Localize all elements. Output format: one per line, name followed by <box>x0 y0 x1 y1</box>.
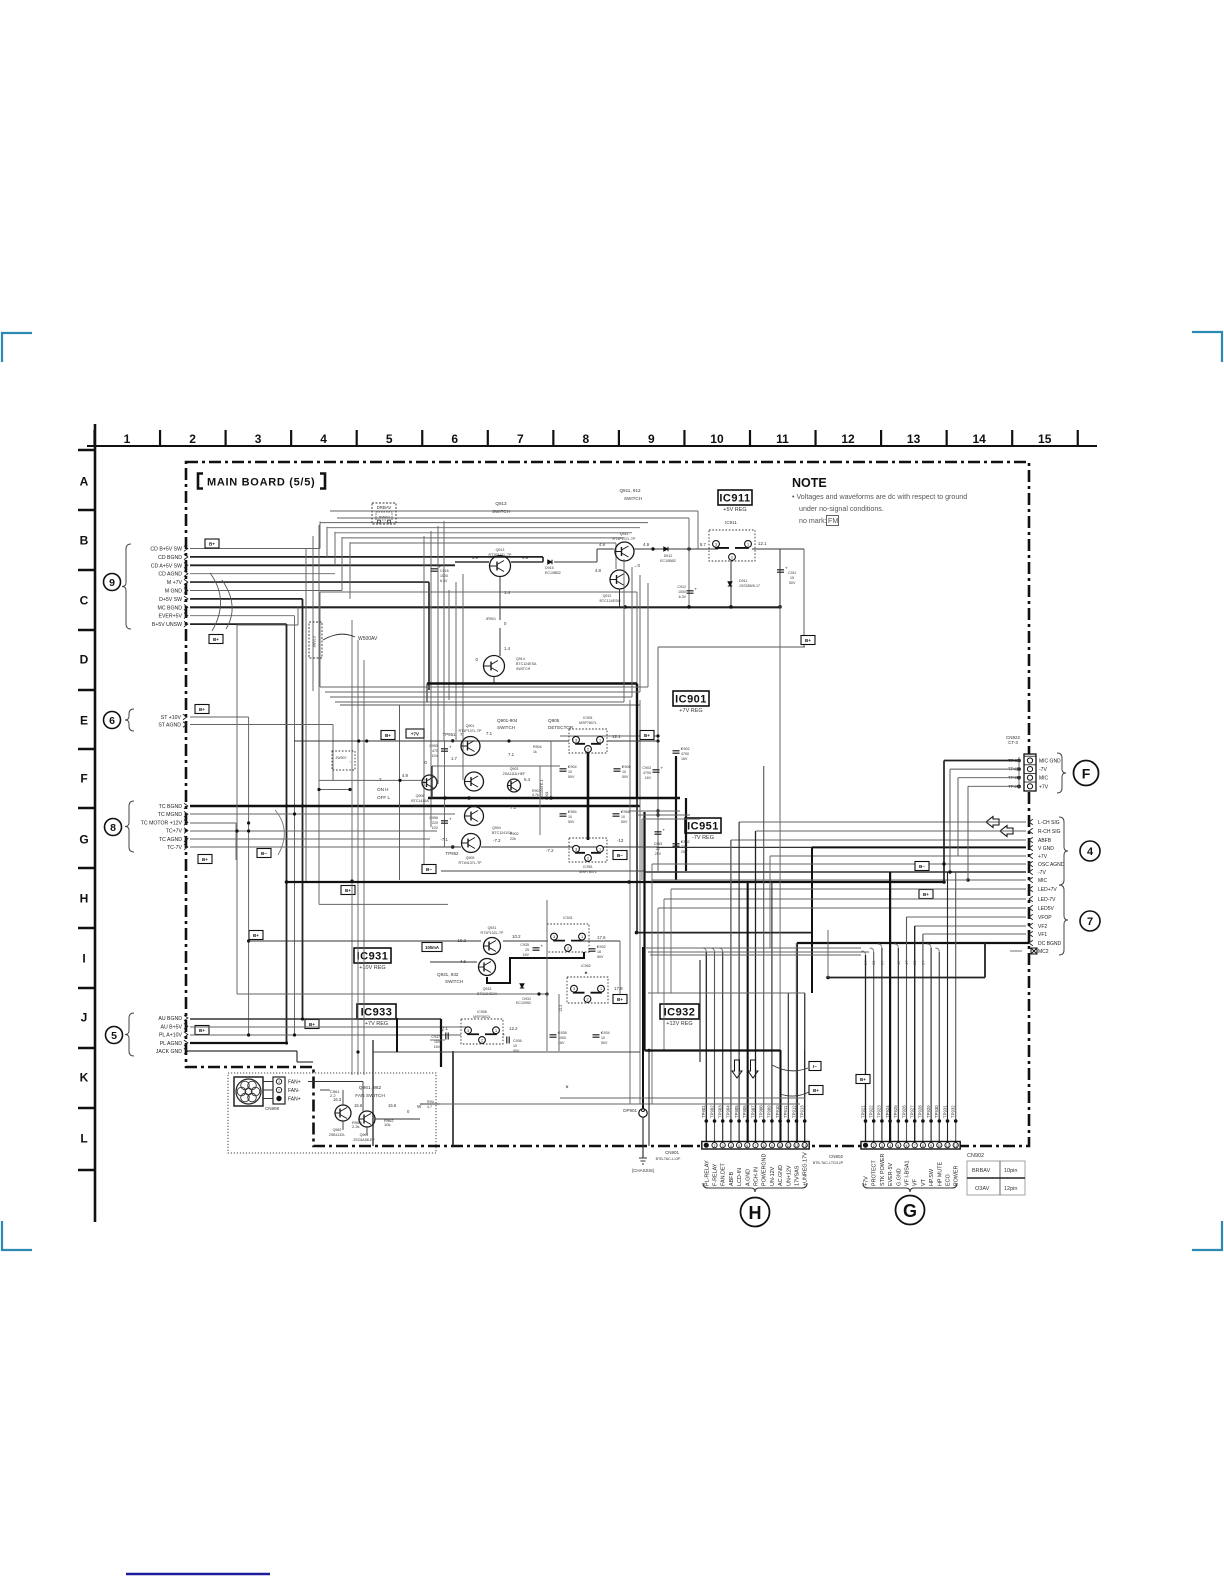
svg-text:15.6: 15.6 <box>388 1103 397 1108</box>
svg-text:100mA: 100mA <box>425 945 439 950</box>
svg-text:Q912: Q912 <box>603 594 612 598</box>
svg-text:B−: B− <box>617 853 623 858</box>
svg-text:C935: C935 <box>520 943 529 947</box>
svg-text:+: + <box>442 1028 445 1033</box>
svg-text:37: 37 <box>879 960 884 965</box>
svg-text:MC BGND: MC BGND <box>158 605 183 611</box>
svg-text:Q931, 932: Q931, 932 <box>437 972 459 977</box>
svg-text:C912: C912 <box>677 585 686 589</box>
svg-text:EVER-5V: EVER-5V <box>888 1163 894 1186</box>
svg-text:TP903: TP903 <box>718 1105 723 1118</box>
svg-text:3: 3 <box>881 1144 883 1148</box>
svg-text:10V: 10V <box>432 826 439 830</box>
svg-text:AU BGND: AU BGND <box>158 1016 182 1022</box>
svg-text:→0: →0 <box>633 563 641 568</box>
svg-text:D911: D911 <box>739 579 747 583</box>
svg-text:10: 10 <box>568 770 572 774</box>
svg-text:IC951: IC951 <box>687 821 719 833</box>
svg-text:A.GND: A.GND <box>745 1169 751 1186</box>
svg-text:2: 2 <box>189 432 196 446</box>
svg-text:4.7: 4.7 <box>427 1105 432 1109</box>
svg-text:G: G <box>79 833 88 847</box>
svg-text:C937: C937 <box>431 1035 440 1039</box>
svg-text:4700: 4700 <box>643 771 651 775</box>
svg-text:8: 8 <box>763 1144 765 1148</box>
svg-text:2: 2 <box>731 556 733 560</box>
svg-text:D901: D901 <box>545 791 549 800</box>
svg-text:M +7V: M +7V <box>167 580 183 586</box>
svg-text:-7.2: -7.2 <box>546 848 554 853</box>
svg-text:R902: R902 <box>510 832 519 836</box>
svg-text:TP928: TP928 <box>918 1105 923 1118</box>
svg-text:TP909: TP909 <box>767 1105 772 1118</box>
svg-text:C954: C954 <box>568 810 577 814</box>
svg-text:Q901-904: Q901-904 <box>497 718 518 723</box>
svg-text:TP952: TP952 <box>446 851 459 856</box>
svg-text:Q906: Q906 <box>416 794 425 798</box>
svg-text:+: + <box>449 817 452 822</box>
svg-text:DC BGND: DC BGND <box>1038 941 1061 947</box>
svg-text:B+: B+ <box>345 888 351 893</box>
svg-text:+7V: +7V <box>1039 784 1049 790</box>
svg-text:27: 27 <box>863 960 868 965</box>
svg-text:TP911: TP911 <box>783 1105 788 1118</box>
svg-text:IC951: IC951 <box>583 865 593 869</box>
svg-text:TP923: TP923 <box>877 1105 882 1118</box>
svg-text:10: 10 <box>513 1044 517 1048</box>
svg-text:B+: B+ <box>253 933 259 938</box>
svg-text:HP MUTE: HP MUTE <box>937 1161 943 1186</box>
svg-text:470: 470 <box>432 749 438 753</box>
svg-text:1SS355/5-17: 1SS355/5-17 <box>739 584 760 588</box>
svg-text:IC952: IC952 <box>581 964 591 968</box>
svg-text:ABFB: ABFB <box>729 1172 735 1186</box>
svg-text:25: 25 <box>525 948 529 952</box>
svg-text:CN902: CN902 <box>829 1154 844 1159</box>
svg-text:MC2: MC2 <box>1038 949 1049 955</box>
svg-text:POWERGND: POWERGND <box>762 1154 768 1186</box>
svg-text:Q913: Q913 <box>495 501 507 506</box>
svg-text:+7V: +7V <box>1038 854 1048 860</box>
svg-text:10: 10 <box>568 815 572 819</box>
svg-text:ON H: ON H <box>377 787 388 792</box>
svg-text:CN908: CN908 <box>265 1106 280 1111</box>
svg-text:57: 57 <box>920 960 925 965</box>
svg-text:2: 2 <box>587 857 589 861</box>
svg-text:OSC AGND: OSC AGND <box>1038 862 1065 868</box>
svg-text:-7V: -7V <box>1038 870 1046 876</box>
svg-text:5: 5 <box>897 1144 899 1148</box>
svg-text:3: 3 <box>255 432 262 446</box>
svg-text:100: 100 <box>434 1040 440 1044</box>
svg-text:RT1P137L-TP: RT1P137L-TP <box>459 729 483 733</box>
svg-text:10: 10 <box>710 432 724 446</box>
svg-text:Q911, 912: Q911, 912 <box>619 488 641 493</box>
svg-text:VF I-BSA1: VF I-BSA1 <box>905 1161 911 1186</box>
svg-text:C916: C916 <box>440 569 449 573</box>
svg-text:RCH-IN: RCH-IN <box>754 1167 760 1186</box>
svg-text:Q905: Q905 <box>466 856 475 860</box>
svg-text:C911: C911 <box>788 571 796 575</box>
svg-text:no mark:: no mark: <box>799 517 827 525</box>
svg-text:12.2: 12.2 <box>559 1005 563 1012</box>
svg-text:2: 2 <box>278 1089 280 1093</box>
svg-text:TC BGND: TC BGND <box>159 804 183 810</box>
svg-text:RT1P132L-TP: RT1P132L-TP <box>481 931 505 935</box>
svg-text:J: J <box>81 1011 88 1025</box>
svg-text:3: 3 <box>553 935 555 939</box>
svg-text:R-CH SIG: R-CH SIG <box>1038 829 1061 835</box>
svg-text:BTC124ESM: BTC124ESM <box>600 599 621 603</box>
svg-text:32: 32 <box>871 960 876 965</box>
svg-text:BTC1415A: BTC1415A <box>411 799 429 803</box>
svg-text:ST AGND: ST AGND <box>158 723 181 729</box>
svg-text:B+: B+ <box>617 997 623 1002</box>
svg-text:MIC: MIC <box>1039 776 1049 782</box>
svg-text:B+: B+ <box>202 857 208 862</box>
svg-text:LED5V: LED5V <box>1038 906 1055 912</box>
svg-text:7: 7 <box>914 1144 916 1148</box>
svg-text:2SA1115-HEF: 2SA1115-HEF <box>503 772 526 776</box>
svg-text:TP929: TP929 <box>926 1105 931 1118</box>
svg-text:220: 220 <box>432 821 438 825</box>
svg-text:2: 2 <box>481 1039 483 1043</box>
svg-text:LED-7V: LED-7V <box>1038 897 1056 903</box>
svg-text:TP927: TP927 <box>910 1105 915 1118</box>
svg-text:TP921: TP921 <box>860 1105 865 1118</box>
svg-text:13: 13 <box>803 1144 807 1148</box>
svg-text:FAN+: FAN+ <box>288 1097 301 1103</box>
svg-text:FM: FM <box>828 517 838 525</box>
svg-text:4.9: 4.9 <box>599 542 606 547</box>
svg-text:C904: C904 <box>568 765 577 769</box>
svg-text:×: × <box>565 1085 569 1091</box>
svg-text:50V: 50V <box>789 581 796 585</box>
svg-text:TP902: TP902 <box>709 1105 714 1118</box>
svg-text:+: + <box>695 587 698 592</box>
svg-text:5: 5 <box>111 1030 117 1042</box>
svg-text:Q933: Q933 <box>483 987 492 991</box>
svg-text:C936: C936 <box>513 1039 522 1043</box>
svg-text:16V: 16V <box>434 1045 441 1049</box>
svg-text:TP901: TP901 <box>701 1105 706 1118</box>
svg-text:RT1P137L-TP: RT1P137L-TP <box>613 537 637 541</box>
svg-text:4.9: 4.9 <box>402 773 409 778</box>
svg-text:11: 11 <box>776 432 789 446</box>
svg-text:BRBAV: BRBAV <box>972 1168 991 1174</box>
svg-text:3: 3 <box>467 1029 469 1033</box>
svg-text:EC10BB2: EC10BB2 <box>660 559 676 563</box>
svg-text:3: 3 <box>575 738 577 742</box>
svg-text:4.9: 4.9 <box>522 555 529 560</box>
svg-text:TP910: TP910 <box>775 1105 780 1118</box>
svg-text:TP906: TP906 <box>742 1105 747 1118</box>
svg-text:6: 6 <box>746 1144 748 1148</box>
svg-text:M GND: M GND <box>165 589 183 595</box>
svg-text:Q961, 962: Q961, 962 <box>359 1085 382 1091</box>
svg-text:4.9: 4.9 <box>472 555 479 560</box>
svg-text:F: F <box>80 772 87 786</box>
svg-text:BTC124ESA: BTC124ESA <box>516 662 537 666</box>
svg-text:-13: -13 <box>617 838 624 843</box>
svg-text:1: 1 <box>600 987 602 991</box>
svg-text:B+: B+ <box>385 733 391 738</box>
svg-text:C: C <box>80 594 89 608</box>
svg-text:B−: B− <box>261 851 267 856</box>
svg-text:IC933: IC933 <box>361 1007 393 1019</box>
svg-text:STK POWER: STK POWER <box>880 1154 886 1186</box>
svg-text:R9U: R9U <box>427 1100 435 1104</box>
svg-text:C902: C902 <box>681 747 690 751</box>
svg-text:NOTE: NOTE <box>792 476 827 490</box>
svg-text:PROTECT: PROTECT <box>872 1160 878 1186</box>
svg-text:Q904: Q904 <box>492 826 501 830</box>
svg-text:50V: 50V <box>601 1041 608 1045</box>
svg-text:50V: 50V <box>568 775 575 779</box>
svg-text:TP926: TP926 <box>901 1105 906 1118</box>
svg-text:SWITCH: SWITCH <box>445 979 463 984</box>
svg-text:11: 11 <box>946 1144 950 1148</box>
svg-text:IC901: IC901 <box>675 694 707 706</box>
svg-text:10: 10 <box>778 1144 782 1148</box>
svg-text:under no-signal conditions.: under no-signal conditions. <box>799 505 884 513</box>
svg-text:2SC5A58-EP: 2SC5A58-EP <box>353 1138 375 1142</box>
svg-text:B+: B+ <box>213 637 219 642</box>
svg-text:L: L <box>80 1132 87 1146</box>
svg-text:JW907: JW907 <box>335 756 346 760</box>
svg-text:8: 8 <box>583 432 590 446</box>
svg-text:+5V REG: +5V REG <box>723 507 746 513</box>
svg-text:B+: B+ <box>860 1077 866 1082</box>
svg-text:D: D <box>80 653 89 667</box>
svg-text:BTB-TAC-LTG/12P: BTB-TAC-LTG/12P <box>813 1161 844 1165</box>
svg-text:2: 2 <box>587 748 589 752</box>
svg-text:CD B+5V SW: CD B+5V SW <box>150 547 182 553</box>
svg-text:Q911: Q911 <box>620 532 629 536</box>
svg-text:B+: B+ <box>644 733 650 738</box>
svg-text:12.2: 12.2 <box>509 1026 518 1031</box>
svg-text:6.3V: 6.3V <box>440 579 448 583</box>
svg-text:+12V REG: +12V REG <box>666 1021 692 1027</box>
svg-text:I−: I− <box>813 1064 817 1069</box>
svg-text:+7V: +7V <box>411 731 419 736</box>
svg-text:22k: 22k <box>510 837 516 841</box>
svg-text:SWITCH: SWITCH <box>413 804 428 808</box>
svg-text:1: 1 <box>747 542 749 546</box>
svg-text:+7V REG: +7V REG <box>365 1021 388 1027</box>
svg-text:1: 1 <box>124 432 131 446</box>
svg-text:JACK GND: JACK GND <box>156 1049 182 1055</box>
svg-text:TP931: TP931 <box>942 1105 947 1118</box>
svg-text:10: 10 <box>601 1036 605 1040</box>
svg-text:BTB-TAC-L13P: BTB-TAC-L13P <box>656 1157 681 1161</box>
svg-text:3: 3 <box>278 1080 280 1084</box>
svg-text:D915: D915 <box>545 566 554 570</box>
svg-text:B+5V UNSW: B+5V UNSW <box>152 622 182 628</box>
svg-text:MSP3802L: MSP3802L <box>473 1015 491 1019</box>
svg-text:8: 8 <box>922 1144 924 1148</box>
svg-text:5.7: 5.7 <box>700 542 707 547</box>
svg-text:ABFB: ABFB <box>1038 838 1052 844</box>
svg-text:TP925: TP925 <box>893 1105 898 1118</box>
svg-text:B+: B+ <box>813 1088 819 1093</box>
svg-text:TP908: TP908 <box>759 1105 764 1118</box>
svg-text:50V: 50V <box>622 775 629 779</box>
svg-text:9: 9 <box>930 1144 932 1148</box>
svg-text:B+: B+ <box>805 638 811 643</box>
svg-text:TP932: TP932 <box>951 1105 956 1118</box>
svg-text:Q962: Q962 <box>333 1128 342 1132</box>
svg-text:10: 10 <box>622 770 626 774</box>
svg-text:+7V REG: +7V REG <box>679 708 702 714</box>
svg-text:B: B <box>80 534 89 548</box>
svg-text:VF1: VF1 <box>1038 932 1047 938</box>
svg-text:10k: 10k <box>384 1122 390 1127</box>
svg-text:14: 14 <box>972 432 986 446</box>
svg-text:12: 12 <box>954 1144 958 1148</box>
svg-text:Q905: Q905 <box>548 718 560 723</box>
svg-text:+: + <box>663 828 666 833</box>
svg-text:9: 9 <box>771 1144 773 1148</box>
svg-text:D+5V SW: D+5V SW <box>159 597 182 603</box>
svg-text:4700: 4700 <box>681 752 689 756</box>
svg-text:9: 9 <box>109 577 115 589</box>
svg-text:E: E <box>80 714 88 728</box>
svg-text:10.2: 10.2 <box>512 934 521 939</box>
svg-text:B+: B+ <box>199 1028 205 1033</box>
svg-text:12.1: 12.1 <box>758 541 767 546</box>
svg-text:HP.SW: HP.SW <box>929 1168 935 1186</box>
svg-text:MAIN BOARD (5/5): MAIN BOARD (5/5) <box>207 477 315 489</box>
svg-text:8: 8 <box>110 822 116 834</box>
svg-text:+: + <box>541 944 544 949</box>
svg-text:6.3V: 6.3V <box>679 595 687 599</box>
svg-text:TP905: TP905 <box>734 1105 739 1118</box>
svg-text:SWITCH: SWITCH <box>497 725 515 730</box>
svg-text:18: 18 <box>597 950 601 954</box>
svg-text:POWER: POWER <box>954 1166 960 1186</box>
svg-text:CN902: CN902 <box>967 1153 984 1159</box>
svg-text:25V: 25V <box>681 850 688 854</box>
svg-text:C903: C903 <box>642 766 651 770</box>
svg-text:• Voltages and waveforms are d: • Voltages and waveforms are dc with res… <box>792 493 967 501</box>
svg-text:C952: C952 <box>681 840 690 844</box>
svg-text:9: 9 <box>648 432 655 446</box>
svg-text:RT1P137L-TP: RT1P137L-TP <box>489 553 513 557</box>
svg-text:4.9: 4.9 <box>643 542 650 547</box>
svg-text:TC+7V: TC+7V <box>166 829 183 835</box>
svg-text:UN+12V: UN+12V <box>786 1165 792 1186</box>
svg-text:MIC GND: MIC GND <box>1039 759 1061 765</box>
svg-text:1.4: 1.4 <box>504 646 511 651</box>
svg-text:16V: 16V <box>558 1041 565 1045</box>
svg-text:B+: B+ <box>209 541 215 546</box>
svg-text:2: 2 <box>567 947 569 951</box>
svg-text:TP951: TP951 <box>443 732 456 737</box>
svg-text:10: 10 <box>938 1144 942 1148</box>
svg-text:LCD-IN: LCD-IN <box>737 1168 743 1186</box>
svg-text:TP922: TP922 <box>869 1105 874 1118</box>
svg-text:EC10952: EC10952 <box>516 1001 531 1005</box>
svg-text:K: K <box>80 1071 89 1085</box>
svg-text:TC MGND: TC MGND <box>158 812 182 818</box>
svg-text:2: 2 <box>586 998 588 1002</box>
svg-text:C908: C908 <box>622 765 631 769</box>
svg-text:+UNREG.17V: +UNREG.17V <box>803 1152 809 1186</box>
svg-text:17.8: 17.8 <box>614 986 623 991</box>
svg-text:6: 6 <box>451 432 458 446</box>
svg-text:MSP7807L: MSP7807L <box>579 870 597 874</box>
svg-text:TP904: TP904 <box>726 1105 731 1118</box>
svg-text:50V: 50V <box>621 820 628 824</box>
svg-text:SWITCH: SWITCH <box>624 496 642 501</box>
svg-text:ST +10V: ST +10V <box>161 715 182 721</box>
svg-text:H: H <box>749 1203 762 1223</box>
svg-text:11: 11 <box>787 1144 791 1148</box>
svg-text:4.8: 4.8 <box>595 568 602 573</box>
svg-text:CD BGND: CD BGND <box>158 555 182 561</box>
svg-text:TC MOTOR +12V: TC MOTOR +12V <box>141 820 183 826</box>
svg-text:B+: B+ <box>199 707 205 712</box>
svg-text:-7V REG: -7V REG <box>692 835 714 841</box>
svg-text:7: 7 <box>517 432 524 446</box>
svg-text:A: A <box>80 475 89 489</box>
svg-text:(CHASSIS): (CHASSIS) <box>632 1168 655 1173</box>
svg-text:12.1: 12.1 <box>612 734 621 739</box>
svg-text:VF: VF <box>913 1178 919 1186</box>
svg-text:4: 4 <box>889 1144 891 1148</box>
svg-text:10: 10 <box>621 815 625 819</box>
svg-text:52: 52 <box>912 960 917 965</box>
svg-text:2: 2 <box>873 1144 875 1148</box>
svg-text:12: 12 <box>841 432 855 446</box>
svg-text:7.1: 7.1 <box>508 752 515 757</box>
svg-text:SWITCH: SWITCH <box>492 509 510 514</box>
svg-text:CD A+5V SW: CD A+5V SW <box>151 563 182 569</box>
svg-text:TP913: TP913 <box>800 1105 805 1118</box>
svg-text:C956: C956 <box>429 816 438 820</box>
svg-text:B+: B+ <box>309 1022 315 1027</box>
svg-text:MSP7807L: MSP7807L <box>579 721 597 725</box>
svg-text:UN-12V: UN-12V <box>770 1166 776 1186</box>
svg-text:47: 47 <box>904 960 909 965</box>
svg-text:42: 42 <box>896 960 901 965</box>
svg-text:-7V: -7V <box>1039 767 1047 773</box>
svg-text:Q903: Q903 <box>510 767 519 771</box>
svg-text:15: 15 <box>1038 432 1052 446</box>
svg-text:16V: 16V <box>645 776 652 780</box>
svg-text:12: 12 <box>795 1144 799 1148</box>
svg-text:C938: C938 <box>558 1031 567 1035</box>
svg-text:TP930: TP930 <box>934 1105 939 1118</box>
svg-text:+: + <box>503 1032 506 1037</box>
svg-text:TP912: TP912 <box>791 1105 796 1118</box>
svg-text:7.1: 7.1 <box>486 731 493 736</box>
svg-text:10pin: 10pin <box>1004 1168 1017 1174</box>
svg-text:G.GND: G.GND <box>896 1168 902 1186</box>
svg-text:1.4: 1.4 <box>504 590 511 595</box>
svg-text:1: 1 <box>599 738 601 742</box>
svg-text:R904: R904 <box>533 745 542 749</box>
svg-text:C953: C953 <box>654 842 663 846</box>
svg-text:JW910: JW910 <box>313 636 317 648</box>
svg-text:DRBAV: DRBAV <box>377 505 392 510</box>
svg-text:IC901: IC901 <box>583 716 593 720</box>
svg-text:FAN-: FAN- <box>288 1088 300 1094</box>
svg-text:16V: 16V <box>681 757 688 761</box>
svg-text:7: 7 <box>1087 916 1093 928</box>
svg-text:3: 3 <box>573 987 575 991</box>
